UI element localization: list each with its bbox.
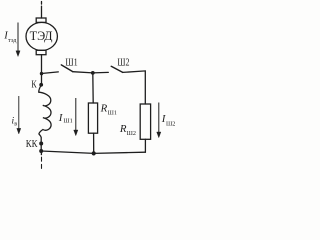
- node top junction Ш1/RШ1: [91, 71, 95, 75]
- arrow current I_Ш1: [74, 98, 78, 136]
- svg-text:Ш1: Ш1: [108, 109, 117, 116]
- svg-text:КК: КК: [26, 139, 39, 150]
- switch Ш2 blade: [111, 66, 123, 72]
- switch Ш1 blade: [61, 65, 72, 72]
- resistor RШ1 body: [88, 103, 97, 133]
- wire Ш2 to RШ2 top: [123, 71, 146, 104]
- inductor L field winding: [39, 85, 51, 137]
- svg-text:Ш1: Ш1: [63, 118, 72, 125]
- arrow current I_тэд: [16, 23, 20, 57]
- wire RШ1 bottom lead: [93, 133, 95, 153]
- wire motor to node K: [41, 55, 43, 85]
- svg-text:R: R: [100, 102, 108, 114]
- brush bottom of motor: [36, 50, 46, 54]
- resistor RШ2 body: [140, 104, 150, 139]
- motor ТЭД circle: [26, 22, 57, 50]
- wire shunt tap stub: [42, 72, 59, 74]
- svg-text:тэд: тэд: [8, 37, 17, 44]
- wire dashed supply top: [41, 2, 43, 9]
- wire RШ2 bottom lead: [144, 139, 146, 152]
- wire junction to RШ1 top: [92, 73, 94, 103]
- svg-text:ТЭД: ТЭД: [30, 29, 53, 43]
- wire Ш1 to junction to Ш2 contact: [73, 72, 109, 73]
- svg-text:Ш2: Ш2: [127, 130, 136, 137]
- node bottom junction RШ1: [92, 151, 96, 155]
- wire coil to node KK and bottom junction: [40, 138, 42, 151]
- svg-text:в: в: [14, 121, 17, 128]
- svg-text:Ш2: Ш2: [166, 121, 175, 128]
- wire to motor top brush: [41, 9, 43, 18]
- node junction at shunt tap: [40, 72, 43, 75]
- node bottom-left junction: [39, 149, 43, 153]
- svg-text:К: К: [31, 80, 37, 91]
- node K terminal dot: [39, 83, 43, 87]
- wire dashed bottom: [40, 151, 42, 155]
- svg-text:Ш1: Ш1: [65, 56, 77, 68]
- svg-text:Ш2: Ш2: [117, 56, 129, 68]
- arrow current i_в: [17, 96, 21, 134]
- arrow current I_Ш2: [157, 103, 161, 138]
- brush top of motor: [36, 18, 46, 22]
- node KK terminal dot: [39, 142, 43, 146]
- wire bottom bus: [41, 151, 145, 153]
